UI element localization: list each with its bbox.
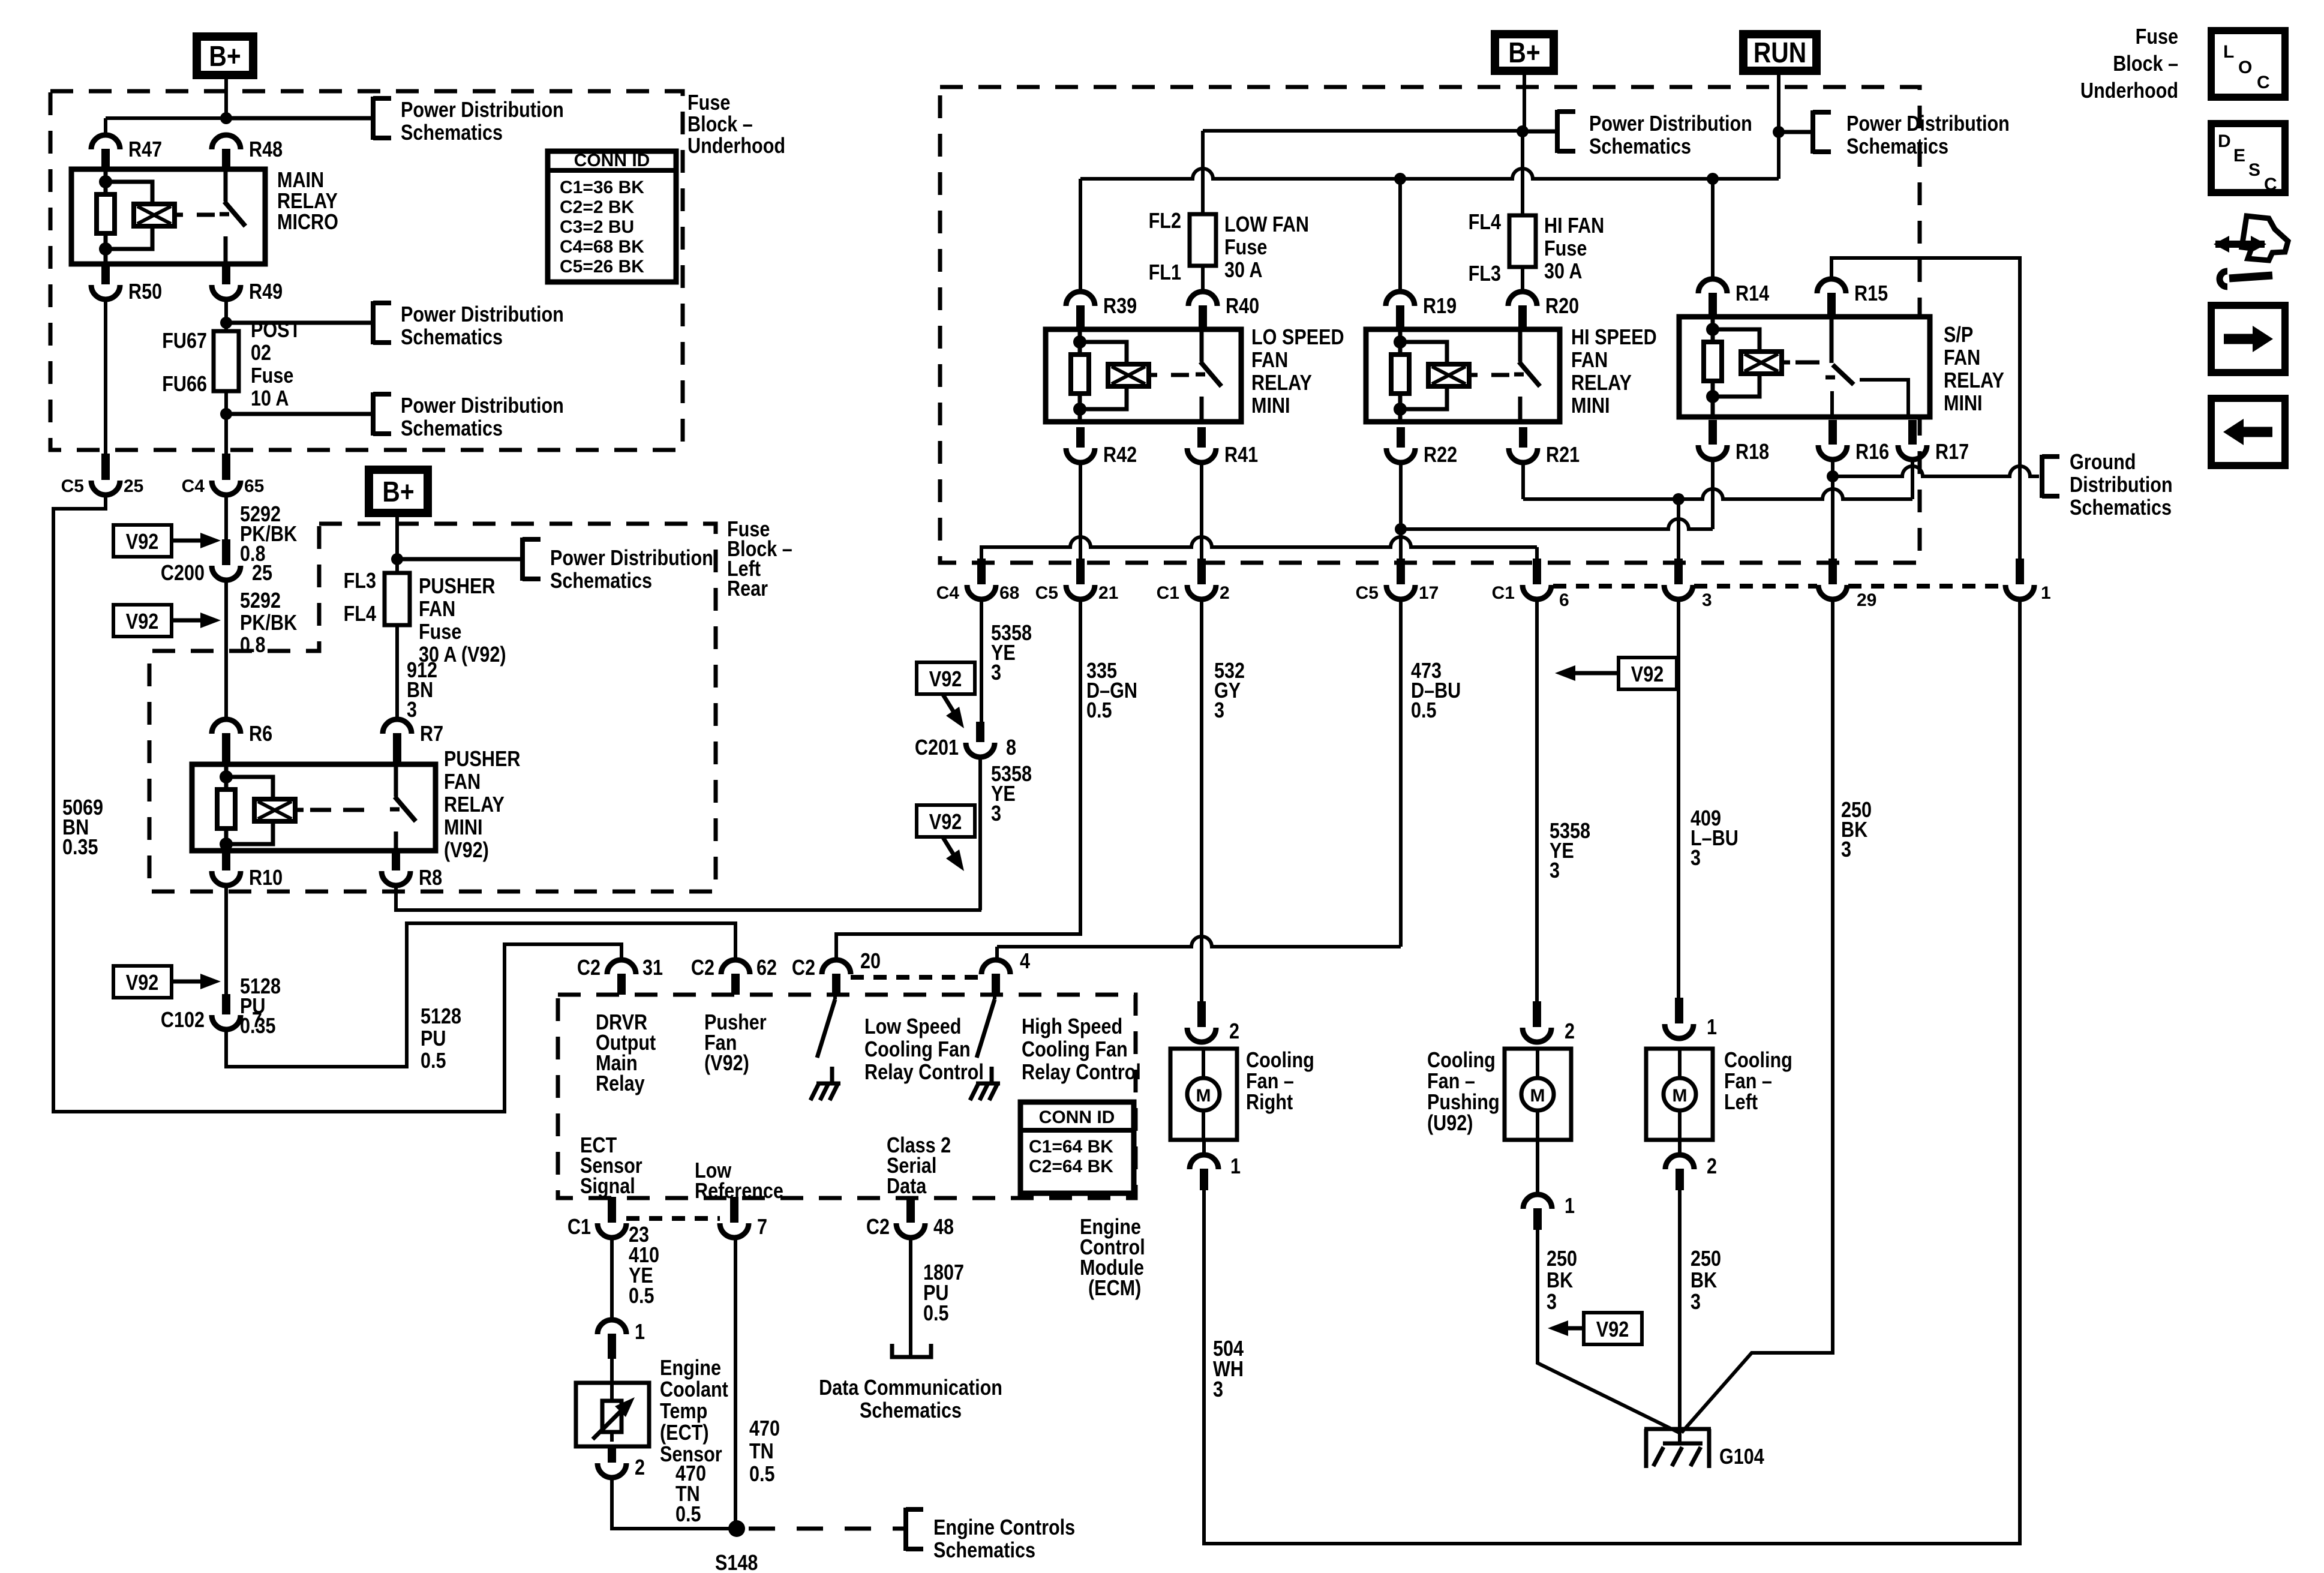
svg-text:Engine: Engine	[660, 1356, 721, 1380]
splice S148	[728, 1520, 745, 1537]
wire junction down to connector 3	[1677, 499, 1680, 559]
svg-text:R42: R42	[1103, 443, 1137, 467]
connector ECM C2 pin 31	[607, 960, 636, 974]
svg-text:Data: Data	[887, 1175, 927, 1199]
wire ECT pin 2 to splice S148	[612, 1480, 737, 1529]
svg-text:FAN: FAN	[1571, 349, 1608, 373]
wire junction down to R14	[1711, 179, 1715, 280]
arrow V92 to wire (center lower)	[943, 837, 956, 858]
svg-text:V92: V92	[929, 810, 962, 834]
wire 5358 YE below C201	[978, 760, 982, 910]
svg-text:RELAY: RELAY	[277, 190, 338, 214]
svg-text:C200: C200	[161, 562, 205, 586]
svg-text:FAN: FAN	[444, 770, 481, 794]
svg-text:PK/BK: PK/BK	[240, 611, 297, 635]
connector pin R21	[1519, 427, 1527, 448]
svg-text:R39: R39	[1103, 295, 1137, 319]
svg-text:FAN: FAN	[419, 598, 455, 622]
wire R17 down to R21 line	[1911, 462, 1914, 499]
svg-text:1: 1	[635, 1320, 645, 1344]
svg-text:PUSHER: PUSHER	[419, 575, 495, 599]
svg-text:R18: R18	[1736, 440, 1769, 464]
power feed B+ (top right)	[1491, 30, 1558, 75]
svg-text:S: S	[2248, 160, 2260, 180]
wire cooling fan left to G104	[1678, 1190, 1682, 1443]
svg-text:C102: C102	[161, 1008, 205, 1032]
svg-text:1: 1	[1565, 1194, 1575, 1218]
wire 473 D-BU C5-17 to ECM pin 4	[1399, 602, 1403, 947]
svg-text:E: E	[2233, 146, 2245, 166]
svg-text:Underhood: Underhood	[687, 134, 785, 158]
node junction R21 line to pin 3	[1673, 493, 1685, 505]
svg-text:FL2: FL2	[1149, 209, 1181, 233]
svg-text:R47: R47	[128, 138, 162, 162]
svg-text:Fuse: Fuse	[1224, 236, 1267, 260]
fuse FL3/FL4 PUSHER FAN 30A	[385, 573, 410, 625]
svg-text:B+: B+	[1508, 37, 1540, 69]
bracket: Power Distribution Schematics (RUN)	[1779, 130, 1813, 134]
svg-text:Schematics: Schematics	[933, 1539, 1035, 1563]
connector cooling fan right pin 2	[1197, 1001, 1206, 1027]
svg-text:C2=2 BK: C2=2 BK	[560, 197, 635, 217]
wire ECT bottom to pin 2	[610, 1432, 614, 1442]
ECM internal switch pin 4	[993, 995, 996, 999]
connector ECM C2 pin 62	[721, 960, 750, 974]
svg-text:Relay: Relay	[596, 1072, 645, 1096]
wire pin 1 down and around to cooling fan right	[1204, 602, 2020, 1544]
connector pin R41	[1197, 427, 1206, 448]
connector cooling fan left pin 2	[1678, 1140, 1682, 1155]
ground symbol (ECM low speed driver)	[816, 1082, 840, 1086]
svg-text:V92: V92	[126, 610, 158, 634]
relay: S/P FAN RELAY MINI	[1679, 317, 1930, 417]
wire R49 to junction	[224, 302, 228, 331]
connector pin 1	[2016, 559, 2024, 584]
connector cooling fan right pin 1	[1202, 1140, 1206, 1155]
wire 5358 YE C4-68 down to C201	[980, 602, 983, 722]
svg-text:0.5: 0.5	[421, 1049, 446, 1073]
wire pushing fan to G104	[1538, 1230, 1679, 1433]
svg-text:30 A: 30 A	[1544, 260, 1582, 284]
svg-text:Left: Left	[1724, 1091, 1758, 1115]
svg-text:R6: R6	[249, 722, 272, 746]
svg-text:Cooling: Cooling	[1427, 1049, 1496, 1073]
svg-text:Schematics: Schematics	[401, 121, 503, 145]
connector pin R8	[392, 851, 400, 870]
svg-text:FL3: FL3	[1469, 262, 1501, 286]
svg-text:C: C	[2264, 175, 2277, 194]
svg-text:C1: C1	[1492, 583, 1515, 603]
svg-text:0.5: 0.5	[923, 1302, 949, 1326]
svg-text:PU: PU	[421, 1027, 446, 1051]
svg-text:R20: R20	[1545, 295, 1579, 319]
connector ECT pin 1	[597, 1320, 626, 1334]
svg-text:68: 68	[999, 583, 1019, 603]
relay: HI SPEED FAN RELAY MINI	[1366, 329, 1560, 422]
svg-text:PUSHER: PUSHER	[444, 748, 520, 772]
svg-text:RUN: RUN	[1753, 37, 1806, 69]
svg-text:M: M	[1196, 1086, 1211, 1106]
connector C4 pin 68	[977, 559, 986, 584]
wire R15 up and over to right drop	[1831, 258, 2020, 559]
svg-text:1: 1	[1707, 1016, 1717, 1040]
svg-text:R22: R22	[1424, 443, 1457, 467]
node junction RUN bus to R14	[1707, 173, 1719, 185]
bracket: Power Distribution Schematics (lower)	[226, 412, 373, 416]
svg-text:Fuse: Fuse	[687, 91, 730, 115]
svg-text:3: 3	[1841, 838, 1851, 862]
svg-text:LO SPEED: LO SPEED	[1251, 326, 1344, 350]
connector pin R10	[222, 851, 230, 870]
wire R21 over to R17	[1521, 465, 1525, 499]
svg-text:POST: POST	[251, 319, 301, 343]
svg-text:C2: C2	[691, 956, 714, 980]
svg-text:62: 62	[756, 956, 777, 980]
ECM internal switch pin 20	[833, 995, 837, 999]
svg-text:MINI: MINI	[1571, 394, 1610, 418]
svg-text:High Speed: High Speed	[1022, 1015, 1122, 1039]
svg-text:R16: R16	[1855, 440, 1889, 464]
arrow V92 to wire (third left)	[172, 980, 206, 984]
svg-text:2: 2	[635, 1456, 645, 1480]
connector cooling fan pushing pin 1	[1536, 1140, 1539, 1195]
bracket: Power Distribution Schematics (left rear)	[397, 557, 523, 562]
svg-text:R19: R19	[1423, 295, 1457, 319]
wire RUN down to bus	[1777, 75, 1780, 179]
svg-text:250: 250	[1547, 1247, 1577, 1271]
svg-text:BK: BK	[1691, 1269, 1717, 1293]
svg-text:C5: C5	[61, 476, 84, 496]
wire R42 down to C5-21	[1079, 465, 1082, 559]
bracket: Power Distribution Schematics (B+ right)	[1523, 130, 1557, 134]
connector pin R19	[1386, 292, 1415, 306]
wire R50 down to C5-25	[104, 302, 107, 460]
svg-text:FAN: FAN	[1944, 346, 1980, 370]
icon box LOC	[2211, 31, 2285, 97]
connector ECM C2 pin 48	[906, 1197, 915, 1223]
node junction RUN bus to R19	[1394, 173, 1406, 185]
motor: Cooling Fan - Right	[1170, 1049, 1237, 1140]
flag V92 (third left)	[113, 966, 172, 998]
svg-text:Ground: Ground	[2070, 451, 2136, 475]
node junction R16 ground line	[1827, 470, 1839, 482]
svg-text:Coolant: Coolant	[660, 1378, 728, 1402]
connector pin R49	[222, 264, 230, 284]
svg-text:Schematics: Schematics	[401, 326, 503, 350]
fuse FL4/FL3 HI FAN 30A	[1509, 215, 1536, 267]
svg-text:0.8: 0.8	[240, 634, 266, 658]
node junction above fuse FU67	[220, 317, 232, 329]
svg-text:3: 3	[1691, 846, 1701, 870]
svg-text:Power Distribution: Power Distribution	[1589, 112, 1752, 136]
connector pin 29	[1828, 559, 1837, 584]
wire 5358 YE C1-6 down to pushing fan	[1535, 602, 1539, 1001]
wire 5358 link C4-68 to C1-6	[981, 547, 987, 559]
flag V92 (second left)	[113, 605, 172, 637]
wire junction to R47 branch	[106, 116, 226, 120]
svg-text:4: 4	[1020, 950, 1030, 974]
svg-text:2: 2	[1565, 1020, 1575, 1044]
connector row interface dashed line	[1553, 584, 1663, 589]
fuse FL2/FL1 LOW FAN 30A	[1190, 214, 1216, 266]
svg-text:(ECM): (ECM)	[1088, 1277, 1141, 1301]
svg-text:Schematics: Schematics	[401, 417, 503, 441]
arrow V92 to C201 (center upper)	[943, 695, 956, 715]
ECM pin interface dashed line top	[851, 975, 981, 980]
wire R18 down and left to R22 wire	[1711, 462, 1715, 529]
connector pin R14	[1698, 279, 1727, 293]
connector ECM C2 pin 20	[822, 960, 851, 974]
svg-text:250: 250	[1691, 1247, 1721, 1271]
svg-text:Right: Right	[1246, 1091, 1293, 1115]
svg-text:1: 1	[2041, 583, 2051, 603]
wire ground distribution line	[1833, 466, 2039, 476]
svg-text:0.5: 0.5	[1411, 699, 1437, 723]
ECM dashed border	[558, 995, 1136, 1198]
svg-text:L: L	[2223, 42, 2234, 62]
svg-text:Cooling Fan: Cooling Fan	[864, 1038, 971, 1062]
connector pin R7	[383, 719, 412, 734]
svg-text:V92: V92	[1631, 663, 1664, 687]
S/P relay switch to R17 path	[1860, 380, 1908, 417]
svg-text:C2=64 BK: C2=64 BK	[1029, 1157, 1113, 1176]
svg-text:2: 2	[1707, 1155, 1717, 1179]
wire B+ down to fuse FL3	[395, 517, 399, 573]
svg-text:Cooling: Cooling	[1724, 1049, 1792, 1073]
svg-text:MICRO: MICRO	[277, 211, 338, 235]
svg-text:C2: C2	[577, 956, 600, 980]
svg-text:Power Distribution: Power Distribution	[401, 394, 564, 418]
wire R41 down to C1-2	[1200, 465, 1203, 559]
svg-text:V92: V92	[1596, 1318, 1629, 1342]
bracket: Power Distribution Schematics (middle)	[226, 321, 373, 325]
svg-text:MINI: MINI	[1944, 392, 1983, 416]
svg-text:3: 3	[991, 661, 1001, 685]
fuse block - left rear dashed border	[149, 524, 716, 891]
connector C5 pin 21	[1076, 559, 1085, 584]
svg-text:0.5: 0.5	[675, 1503, 701, 1527]
svg-text:R50: R50	[128, 280, 162, 304]
svg-text:TN: TN	[749, 1440, 774, 1464]
connector pin R40	[1188, 292, 1217, 306]
connector pin R16	[1828, 420, 1837, 445]
wire RUN bus to relay coils (line B)	[1080, 169, 1779, 179]
svg-text:FU66: FU66	[162, 373, 207, 397]
svg-text:3: 3	[1213, 1378, 1223, 1402]
connector pin R48	[212, 135, 241, 149]
svg-text:0.5: 0.5	[1086, 699, 1112, 723]
svg-text:CONN ID: CONN ID	[1039, 1107, 1115, 1127]
svg-text:(U92): (U92)	[1427, 1112, 1473, 1136]
svg-text:Schematics: Schematics	[860, 1399, 962, 1423]
svg-text:Distribution: Distribution	[2070, 473, 2173, 497]
svg-text:FAN: FAN	[1251, 349, 1288, 373]
icon box arrow right	[2211, 305, 2285, 373]
fuse block - underhood (left) dashed border	[50, 91, 683, 450]
connector ECM pin 7	[730, 1197, 738, 1223]
svg-text:48: 48	[933, 1215, 954, 1239]
svg-text:C4=68 BK: C4=68 BK	[560, 237, 644, 257]
node junction below B+ (left)	[220, 112, 232, 124]
svg-text:RELAY: RELAY	[1944, 369, 2004, 393]
wire low reference pin 7 to S148	[734, 1240, 737, 1529]
svg-text:RELAY: RELAY	[1251, 371, 1312, 395]
svg-text:C3=2 BU: C3=2 BU	[560, 217, 634, 237]
svg-text:Reference: Reference	[695, 1179, 783, 1203]
svg-text:20: 20	[860, 950, 881, 974]
svg-text:10 A: 10 A	[251, 387, 289, 411]
svg-text:O: O	[2238, 58, 2252, 77]
svg-text:3: 3	[407, 698, 417, 722]
svg-text:Low Speed: Low Speed	[864, 1015, 961, 1039]
svg-text:RELAY: RELAY	[444, 793, 505, 817]
node junction R22/R18 wire	[1395, 523, 1407, 535]
connector pin R47	[91, 135, 120, 149]
svg-text:Fuse: Fuse	[2136, 25, 2178, 49]
svg-text:3: 3	[1702, 590, 1712, 610]
wire 250 BK pin 29 down to G104	[1682, 602, 1833, 1433]
svg-text:3: 3	[991, 802, 1001, 826]
svg-text:21: 21	[1098, 583, 1118, 603]
svg-text:0.35: 0.35	[62, 836, 98, 860]
svg-text:Power Distribution: Power Distribution	[401, 98, 564, 122]
svg-text:Fan –: Fan –	[1427, 1070, 1475, 1094]
svg-text:C4: C4	[936, 583, 960, 603]
node junction B+ right	[1517, 125, 1529, 137]
wire B+ right down through HI FAN fuse to R20	[1523, 75, 1526, 131]
svg-text:M: M	[1530, 1086, 1545, 1106]
arrow V92 to wire (upper left)	[172, 539, 206, 543]
svg-text:(V92): (V92)	[704, 1052, 749, 1076]
svg-text:R8: R8	[419, 866, 442, 890]
svg-text:R48: R48	[249, 138, 283, 162]
svg-text:Cooling Fan: Cooling Fan	[1022, 1038, 1128, 1062]
flag V92 (center lower)	[917, 805, 975, 837]
table CONN ID (fuse block underhood)	[548, 151, 676, 282]
svg-text:FL4: FL4	[344, 602, 377, 626]
svg-text:5128: 5128	[421, 1005, 461, 1029]
svg-text:V92: V92	[126, 971, 158, 995]
svg-text:C5: C5	[1356, 583, 1379, 603]
wire 409 L-BU pin 3 down to cooling fan left	[1677, 602, 1680, 998]
wire R10 down to C102	[224, 888, 228, 994]
svg-text:R7: R7	[420, 722, 443, 746]
table CONN ID (ECM)	[1020, 1102, 1134, 1193]
power feed B+ (left rear)	[365, 466, 432, 517]
svg-text:30 A: 30 A	[1224, 259, 1262, 283]
svg-text:V92: V92	[929, 668, 962, 692]
svg-text:RELAY: RELAY	[1571, 371, 1632, 395]
wire ECT signal down to ECT sensor	[610, 1240, 614, 1320]
svg-text:FU67: FU67	[162, 329, 207, 353]
svg-text:MAIN: MAIN	[277, 169, 324, 193]
svg-text:2: 2	[1220, 583, 1230, 603]
svg-text:FL3: FL3	[344, 569, 376, 593]
svg-text:Engine Controls: Engine Controls	[933, 1516, 1075, 1540]
svg-text:(ECT): (ECT)	[660, 1421, 709, 1445]
wire C200 down to R6	[224, 583, 228, 720]
svg-text:Pushing: Pushing	[1427, 1091, 1500, 1115]
svg-text:Power Distribution: Power Distribution	[401, 303, 564, 327]
flag V92 (upper left)	[113, 525, 172, 557]
connector pin R22	[1397, 427, 1405, 448]
bracket: Ground Distribution Schematics	[2040, 455, 2044, 498]
wire B+ down to junction	[224, 79, 228, 118]
node junction RUN	[1773, 126, 1785, 138]
svg-text:Relay Control: Relay Control	[864, 1061, 984, 1085]
svg-text:(V92): (V92)	[444, 839, 489, 863]
svg-text:C4: C4	[182, 476, 205, 496]
fuse block - underhood (right) dashed border	[940, 87, 1920, 563]
connector pin R20	[1508, 292, 1537, 306]
svg-text:Underhood: Underhood	[2080, 79, 2178, 103]
svg-text:Cooling: Cooling	[1246, 1049, 1314, 1073]
wire 335 D-GN C5-21 to ECM pin 20	[836, 602, 1080, 960]
thermistor symbol	[602, 1401, 621, 1432]
connector C1 pin 2	[1197, 559, 1206, 584]
flag V92 (pushing fan)	[1584, 1313, 1642, 1344]
ECM pin interface dashed line bottom	[626, 1216, 720, 1221]
svg-text:25: 25	[124, 476, 143, 496]
svg-text:HI FAN: HI FAN	[1544, 214, 1604, 238]
wire bus B+ to LOW FAN fuse branch (line A)	[1203, 131, 1523, 214]
wire below fuse to junction	[224, 391, 228, 460]
wire 912 BN below fuse to R7	[395, 625, 399, 720]
connector pin 3	[1674, 559, 1683, 584]
svg-text:HI SPEED: HI SPEED	[1571, 326, 1657, 350]
connector pin R6	[212, 719, 241, 734]
wire R8 to 5358 junction	[396, 888, 981, 910]
svg-text:B+: B+	[382, 476, 414, 508]
svg-text:FL1: FL1	[1149, 261, 1181, 285]
connector ECM pin 4	[981, 960, 1010, 974]
wire R16 down to connector 29	[1831, 462, 1834, 559]
connector cooling fan pushing pin 2	[1533, 1001, 1541, 1027]
wire R22 down to C5-17	[1399, 465, 1403, 559]
flag V92 (right middle)	[1619, 658, 1677, 689]
connector cooling fan left pin 1	[1675, 998, 1683, 1023]
dashed wire S148 to engine controls schematics	[749, 1527, 900, 1531]
connector pin R18	[1709, 420, 1717, 445]
wire junction down to R19	[1398, 179, 1402, 292]
svg-text:C5: C5	[1035, 583, 1058, 603]
connector pin R17	[1908, 420, 1917, 445]
svg-text:Block –: Block –	[687, 113, 753, 137]
svg-text:MINI: MINI	[1251, 394, 1290, 418]
connector C200 pin 25	[222, 539, 230, 565]
ground G104 symbol	[1644, 1427, 1711, 1431]
svg-text:Schematics: Schematics	[1589, 135, 1691, 159]
svg-text:M: M	[1673, 1086, 1688, 1106]
icon vehicle location with wrench	[2215, 241, 2265, 248]
connector pin R42	[1076, 427, 1085, 448]
svg-text:CONN ID: CONN ID	[574, 151, 650, 170]
svg-text:2: 2	[1229, 1020, 1239, 1044]
power feed B+ (top left)	[193, 32, 257, 79]
svg-text:Power Distribution: Power Distribution	[1846, 112, 2010, 136]
svg-text:Block –: Block –	[2113, 52, 2178, 76]
svg-text:C5=26 BK: C5=26 BK	[560, 257, 644, 277]
svg-text:3: 3	[1214, 699, 1224, 723]
svg-text:MINI: MINI	[444, 816, 483, 840]
svg-text:Relay Control: Relay Control	[1022, 1061, 1141, 1085]
svg-text:Fuse: Fuse	[1544, 237, 1587, 261]
svg-text:Fan –: Fan –	[1724, 1070, 1772, 1094]
connector ECT pin 2	[608, 1446, 616, 1463]
svg-text:Temp: Temp	[660, 1400, 707, 1424]
fuse FU67/FU66 POST 02 10A	[214, 331, 239, 391]
motor: Cooling Fan - Left	[1646, 1049, 1713, 1140]
